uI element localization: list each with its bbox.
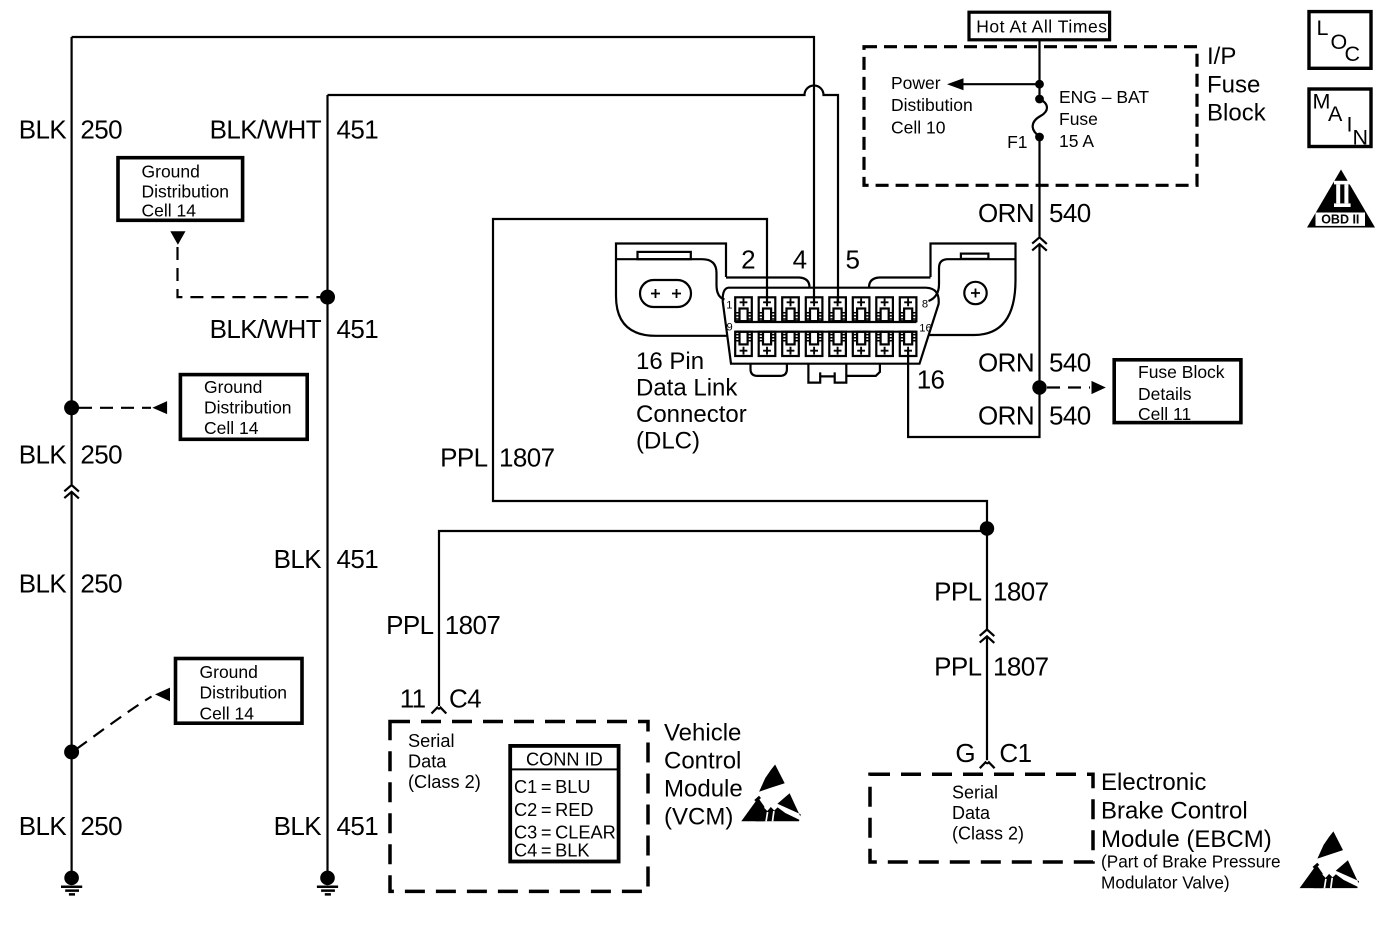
Ground Distribution Cell 14 box (bottom) [176, 659, 303, 724]
MAIN reference box [1309, 89, 1371, 147]
svg-text:C4: C4 [449, 683, 481, 713]
junction dot at power distribution branch [1035, 80, 1044, 89]
dashed arrow to middle ground box [79, 407, 151, 409]
svg-text:G: G [955, 738, 975, 768]
svg-text:Data Link: Data Link [636, 375, 738, 402]
svg-text:BLK: BLK [274, 544, 323, 574]
svg-text:A: A [1328, 102, 1343, 126]
svg-text:Distribution: Distribution [142, 182, 230, 202]
svg-text:451: 451 [337, 544, 379, 574]
svg-text:Connector: Connector [636, 401, 747, 428]
svg-text:Details: Details [1138, 384, 1192, 404]
svg-text:4: 4 [793, 245, 807, 275]
splice S339 dot [320, 290, 335, 305]
svg-text:PPL: PPL [386, 610, 433, 640]
DLC bottom middle key tab [808, 364, 846, 383]
DLC pin 12 (bottom row) [806, 332, 823, 356]
svg-text:Vehicle: Vehicle [664, 719, 741, 746]
DLC pin 10 (bottom row) [759, 332, 776, 356]
VCM connector entry symbol [432, 708, 447, 714]
junction splice S215 [980, 521, 994, 535]
DLC pin 1 (top row) [735, 297, 752, 321]
svg-text:16 Pin: 16 Pin [636, 348, 704, 375]
wire BLK 250 left vertical (lower segment) to ground [70, 492, 72, 871]
Vehicle Control Module dashed box [390, 722, 648, 892]
DLC pin 4 (top row) [806, 297, 823, 321]
DLC pin 8 (top row) [900, 297, 917, 321]
svg-text:C: C [1345, 42, 1361, 66]
svg-text:540: 540 [1049, 348, 1091, 378]
DLC hood upper edge left segment [726, 278, 810, 288]
DLC pin 2 (top row) [759, 297, 776, 321]
svg-text:16: 16 [917, 364, 945, 394]
DLC hood upper edge right segment [869, 278, 931, 288]
svg-text:Cell 11: Cell 11 [1138, 404, 1191, 424]
fuse F1 ENG-BAT 15 A [1035, 95, 1044, 104]
svg-text:Cell 10: Cell 10 [891, 118, 946, 138]
svg-text:Data: Data [952, 803, 991, 823]
svg-text:Modulator Valve): Modulator Valve) [1101, 873, 1230, 893]
svg-text:(Class 2): (Class 2) [408, 772, 481, 792]
svg-text:1807: 1807 [499, 443, 555, 473]
svg-text:ORN: ORN [978, 198, 1034, 228]
Ground Distribution Cell 14 box (middle) [180, 375, 307, 440]
svg-text:1807: 1807 [993, 652, 1049, 682]
svg-text:CONN ID: CONN ID [526, 750, 603, 770]
DLC pin 6 (top row) [853, 297, 870, 321]
LOC reference box [1309, 12, 1371, 69]
wire PPL 1807 branch to VCM pin 11 C4 [439, 531, 987, 706]
svg-text:C4 = BLK: C4 = BLK [514, 841, 590, 861]
DLC left ear inner outline [616, 259, 725, 299]
DLC bottom left tab [751, 364, 787, 376]
svg-text:N: N [1353, 126, 1369, 150]
splice break symbol on PPL 1807 [980, 630, 995, 643]
svg-text:Ground: Ground [200, 662, 258, 682]
dashed diagonal to bottom ground box [77, 697, 152, 750]
svg-text:I/P: I/P [1207, 43, 1236, 70]
splice break symbol on BLK 250 [64, 485, 79, 498]
svg-text:451: 451 [337, 811, 379, 841]
DLC right ear inner outline [929, 259, 1016, 301]
Ground Distribution Cell 14 box (top) [118, 158, 243, 221]
svg-text:C1 = BLU: C1 = BLU [514, 777, 591, 797]
svg-text:BLK: BLK [274, 811, 323, 841]
DLC pin 15 (bottom row) [876, 332, 893, 356]
ground symbol G101 (left) [61, 871, 82, 895]
OBD II triangle symbol [1307, 170, 1375, 228]
svg-text:Serial: Serial [408, 731, 455, 751]
svg-text:451: 451 [337, 314, 379, 344]
svg-text:BLK: BLK [19, 811, 68, 841]
svg-text:ENG – BAT: ENG – BAT [1059, 87, 1149, 107]
svg-text:1807: 1807 [993, 577, 1049, 607]
svg-text:5: 5 [846, 245, 860, 275]
svg-text:C1: C1 [999, 738, 1031, 768]
svg-text:Ground: Ground [142, 162, 200, 182]
svg-text:Module (EBCM): Module (EBCM) [1101, 826, 1272, 853]
dashed arrow to Fuse Block Details [1047, 386, 1090, 388]
wire PPL 1807 from DLC pin 2 up, left, down, and right to splice [493, 219, 987, 529]
Hot At All Times box [969, 12, 1110, 40]
svg-text:8: 8 [922, 299, 928, 311]
svg-text:16: 16 [919, 322, 931, 334]
wire ORN 540 down to corner and left to DLC pin 16 [908, 244, 1039, 437]
16 Pin Data Link Connector (DLC) drawing [616, 244, 1016, 383]
svg-text:Cell 14: Cell 14 [200, 704, 255, 724]
svg-text:Power: Power [891, 73, 941, 93]
svg-text:BLK: BLK [19, 114, 68, 144]
junction dot to fuse block details [1032, 380, 1046, 394]
wire BLK/WHT 451 vertical [326, 95, 328, 871]
EBCM connector entry symbol [980, 762, 995, 768]
svg-text:Serial: Serial [952, 783, 998, 803]
svg-text:250: 250 [80, 440, 122, 470]
svg-text:451: 451 [337, 114, 379, 144]
svg-text:11: 11 [400, 683, 426, 713]
wire PPL 1807 branch down toward EBCM (upper segment) [986, 529, 988, 630]
svg-text:Cell 14: Cell 14 [142, 201, 197, 221]
DLC pin 7 (top row) [876, 297, 893, 321]
svg-text:Control: Control [664, 747, 741, 774]
svg-text:PPL: PPL [934, 577, 981, 607]
svg-text:BLK/WHT: BLK/WHT [210, 114, 322, 144]
svg-text:Module: Module [664, 775, 743, 802]
DLC pin 5 (top row) [829, 297, 846, 321]
CONN ID table [510, 746, 618, 862]
svg-text:Distribution: Distribution [200, 683, 288, 703]
svg-text:Distibution: Distibution [891, 95, 973, 115]
arrow from ground box 1 down [170, 231, 185, 245]
svg-text:540: 540 [1049, 198, 1091, 228]
svg-text:1807: 1807 [445, 610, 501, 640]
svg-text:Data: Data [408, 752, 447, 772]
wire ORN 540 from fuse F1 down (upper segment) [1038, 137, 1040, 237]
ESD sensitivity symbol (VCM) [741, 765, 800, 822]
dashed line from arrow to splice on BLK/WHT 451 [178, 247, 322, 297]
DLC pin 11 (bottom row) [782, 332, 799, 356]
svg-text:250: 250 [80, 811, 122, 841]
dot on BLK 250 at bottom ground ref [64, 745, 79, 760]
svg-text:2: 2 [741, 245, 755, 275]
svg-text:Fuse: Fuse [1207, 71, 1260, 98]
wire BLK 250 left vertical (upper segment) [70, 37, 72, 484]
wire from Hot At All Times into fuse block [1038, 40, 1040, 99]
DLC right ear round mounting hole [964, 282, 986, 304]
DLC pin 13 (bottom row) [829, 332, 846, 356]
wire PPL 1807 to EBCM pin G C1 (lower segment) [986, 636, 988, 760]
wire BLK/WHT 451 top run with hop over BLK 250 wire, to DLC pin 5 [328, 86, 839, 304]
svg-text:9: 9 [726, 321, 732, 333]
DLC middle bar between pin rows [735, 322, 916, 332]
svg-text:(VCM): (VCM) [664, 803, 733, 830]
svg-text:Distribution: Distribution [204, 398, 292, 418]
svg-text:Cell 14: Cell 14 [204, 418, 259, 438]
svg-text:(DLC): (DLC) [636, 428, 700, 455]
svg-text:ORN: ORN [978, 348, 1034, 378]
svg-text:ORN: ORN [978, 401, 1034, 431]
DLC right ear top tab [961, 254, 989, 259]
svg-text:Ground: Ground [204, 377, 262, 397]
svg-text:(Class 2): (Class 2) [952, 824, 1024, 844]
svg-text:250: 250 [80, 569, 122, 599]
DLC bottom right tab [846, 364, 880, 376]
svg-text:15 A: 15 A [1059, 131, 1094, 151]
svg-text:Electronic: Electronic [1101, 769, 1206, 796]
svg-text:BLK: BLK [19, 569, 68, 599]
DLC pin 16 (bottom row) [900, 332, 917, 356]
DLC pin 9 (bottom row) [735, 332, 752, 356]
DLC left ear oval mounting hole [640, 280, 691, 307]
DLC right mounting ear outer outline [929, 244, 1016, 336]
ground symbol (right, BLK 451) [317, 871, 338, 895]
svg-text:Hot At All Times: Hot At All Times [976, 17, 1107, 37]
Fuse Block Details Cell 11 box [1114, 360, 1241, 423]
Electronic Brake Control Module dashed box [870, 774, 1093, 862]
svg-text:540: 540 [1049, 401, 1091, 431]
svg-text:1: 1 [726, 299, 732, 311]
svg-text:PPL: PPL [440, 443, 487, 473]
DLC left mounting ear outer outline [616, 244, 727, 336]
svg-text:Brake Control: Brake Control [1101, 798, 1248, 825]
DLC face trapezoid outline [723, 288, 939, 364]
splice break symbol on ORN 540 [1032, 237, 1047, 250]
DLC pin 3 (top row) [782, 297, 799, 321]
DLC left ear top tab [638, 252, 691, 259]
ESD sensitivity symbol (EBCM) [1300, 831, 1359, 888]
DLC pin 14 (bottom row) [853, 332, 870, 356]
svg-text:BLK/WHT: BLK/WHT [210, 314, 322, 344]
wire BLK 250 top horizontal run to DLC pin 4 [72, 37, 814, 303]
svg-text:F1: F1 [1007, 132, 1027, 152]
svg-text:PPL: PPL [934, 652, 981, 682]
svg-text:OBD II: OBD II [1321, 213, 1359, 227]
dot on BLK 250 at middle ground ref [64, 400, 79, 415]
svg-text:C2 = RED: C2 = RED [514, 800, 594, 820]
svg-text:Fuse Block: Fuse Block [1138, 362, 1225, 382]
svg-text:250: 250 [80, 114, 122, 144]
svg-text:L: L [1317, 16, 1329, 40]
svg-text:BLK: BLK [19, 440, 68, 470]
svg-text:Fuse: Fuse [1059, 109, 1098, 129]
I/P Fuse Block dashed box [864, 47, 1197, 186]
svg-text:(Part of Brake Pressure: (Part of Brake Pressure [1101, 852, 1281, 872]
arrow line to Power Distibution [963, 83, 1040, 85]
svg-text:Block: Block [1207, 99, 1267, 126]
